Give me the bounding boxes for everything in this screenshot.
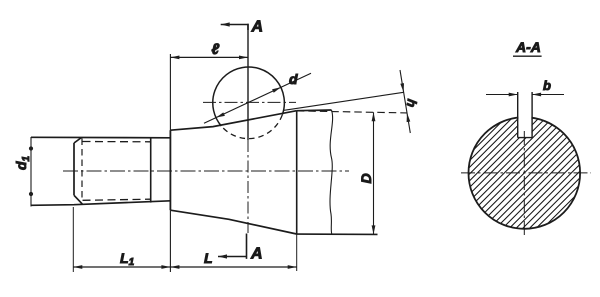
diameter d dimension line (204, 73, 311, 123)
svg-text:D: D (358, 173, 374, 183)
L1 arrows (73, 265, 82, 269)
keyway bottom line (line B, D top extension) (297, 111, 407, 113)
bottom dimension line L1 + L (73, 266, 296, 268)
svg-text:L: L (204, 250, 213, 266)
cutter circle dashed arc (hidden in material) (221, 115, 282, 139)
cone bottom edge (170, 210, 296, 234)
dimension d1 line with dot ends (30, 137, 32, 207)
svg-text:A-A: A-A (515, 39, 541, 55)
svg-text:d: d (289, 71, 298, 87)
cone right face (296, 111, 298, 234)
dimension h tilted line (400, 70, 410, 133)
dimension l line (170, 56, 248, 58)
h arrow upper (400, 83, 404, 92)
extension below cone face for L (296, 234, 298, 271)
section line A dash-dot below circle (247, 140, 249, 233)
extension at thread tip for L1 (72, 207, 74, 272)
svg-text:A: A (251, 19, 264, 36)
thread M-end outline (cylinder top/bottom with extension to d1 dim) (31, 137, 170, 205)
section vertical centerline (523, 131, 525, 237)
thread chamfer (74, 138, 83, 205)
svg-text:ℓ: ℓ (212, 41, 220, 58)
cone top edge (170, 111, 296, 131)
thread runout dashed vertical (81, 139, 83, 201)
d arrow lower-left (216, 112, 225, 117)
keyway slot notch (white) (518, 110, 531, 138)
shoulder face (cone small end) (169, 130, 171, 210)
section circle outline (469, 117, 581, 229)
section horizontal centerline (461, 172, 591, 174)
wavy break line (330, 110, 333, 234)
dimension b (486, 94, 564, 96)
L arrows (170, 265, 179, 269)
cutting plane mark A top (221, 24, 248, 30)
key top line (line A, parallel to cone surface) (284, 92, 404, 110)
svg-text:b: b (543, 78, 551, 93)
shoulder line (extension for l, L1, L) (169, 54, 171, 272)
thread end line (150, 138, 152, 203)
shaft D top edge (297, 109, 332, 112)
main axis centerline (63, 170, 349, 172)
section line A vertical (solid through circle) (247, 24, 249, 140)
h arrow lower (407, 113, 411, 122)
shaft D bottom edge (extends right as D extension) (297, 233, 378, 235)
keyway slot outline (518, 92, 532, 138)
cutter circle horizontal centerline (203, 101, 296, 103)
svg-text:A: A (250, 246, 263, 263)
section circle hatching (469, 117, 581, 229)
cutting plane mark A bottom (218, 234, 247, 259)
thread dashed minor-diameter lines (83, 142, 151, 201)
dimension D line (373, 112, 375, 234)
cutter circle solid arc (213, 67, 285, 126)
d arrow upper-right (272, 87, 281, 93)
